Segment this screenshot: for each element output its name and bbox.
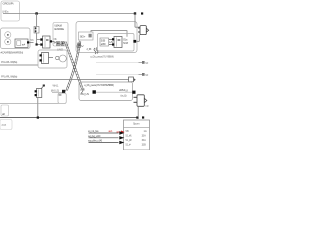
pigtail top-left bbox=[59, 43, 65, 45]
svg-text:15.B: 15.B bbox=[142, 144, 147, 147]
svg-text:L/A02: L/A02 bbox=[57, 47, 64, 51]
svg-text:SiGr-: SiGr- bbox=[80, 35, 86, 39]
svg-text:PFLARU.Mt(8a): PFLARU.Mt(8a) bbox=[1, 75, 17, 79]
svg-text:UtZ#Lt8: UtZ#Lt8 bbox=[54, 23, 62, 27]
plug P2 bottom right bbox=[134, 95, 147, 118]
node dot far right bbox=[141, 12, 143, 14]
connector C0 on vertical wire bbox=[34, 27, 39, 34]
svg-text:SO#: SO# bbox=[123, 41, 128, 45]
pin stubs bbox=[37, 39, 41, 41]
svg-text:a.BD: a.BD bbox=[101, 42, 106, 46]
plug P1 top right bbox=[135, 14, 149, 42]
svg-text:#CAXRE(NHMRSN): #CAXRE(NHMRSN) bbox=[1, 51, 24, 55]
main bus line y=117.5 bbox=[0, 117, 138, 119]
svg-text:avg_p0ey_u140: avg_p0ey_u140 bbox=[88, 140, 103, 143]
svg-text:Spum: Spum bbox=[133, 122, 140, 126]
svg-text:15.A: 15.A bbox=[142, 139, 147, 142]
outer box R bbox=[76, 22, 137, 53]
box B printer bbox=[79, 82, 136, 101]
wire line y=79.5 bbox=[0, 79, 129, 81]
wire vertical x=36.5 bbox=[36, 14, 38, 45]
box L2 bbox=[38, 50, 67, 68]
svg-text:#O8: #O8 bbox=[2, 123, 7, 127]
svg-text:5.1_#2: 5.1_#2 bbox=[126, 139, 133, 142]
terminator on line y=79.5 bbox=[129, 77, 136, 82]
svg-text:aKBub_g: aKBub_g bbox=[119, 88, 128, 92]
svg-text:(m_U): (m_U) bbox=[121, 93, 127, 97]
small box on bus left bbox=[1, 105, 9, 116]
small box bottom-left bbox=[0, 120, 12, 130]
svg-text:an_m1_bce: an_m1_bce bbox=[88, 130, 99, 133]
conn pins R bottom-left bbox=[77, 43, 81, 50]
signal converter CM1 bbox=[43, 36, 51, 48]
svg-text:#eSRD#a: #eSRD#a bbox=[54, 27, 64, 31]
area line y=103.5 bbox=[0, 102, 59, 104]
chain beta (twisted pair cable) bbox=[66, 41, 81, 91]
controller box TL bbox=[1, 1, 20, 21]
faint wire y=74.5 + end mark bbox=[96, 74, 142, 76]
junction dot bbox=[36, 43, 38, 45]
svg-text:u_0b_peca (7UYbRTE5BM): u_0b_peca (7UYbRTE5BM) bbox=[84, 83, 114, 87]
svg-text:15.A: 15.A bbox=[142, 135, 147, 138]
wire bus top y=13.5 bbox=[3, 13, 135, 15]
node dot right bbox=[134, 12, 136, 14]
svg-text:BM_US: BM_US bbox=[81, 92, 90, 96]
small rect in R2 bbox=[100, 38, 109, 46]
svg-text:5.1_#1: 5.1_#1 bbox=[126, 135, 133, 138]
small unit R1 bbox=[79, 32, 94, 40]
component CP3 bottom bbox=[35, 85, 45, 98]
inner box R2 bbox=[98, 34, 135, 52]
svg-text:WHL1: WHL1 bbox=[53, 85, 60, 88]
right pin of box R bbox=[133, 40, 136, 43]
svg-text:GROUPt: GROUPt bbox=[3, 2, 14, 6]
remote box L0 bbox=[1, 28, 35, 49]
legend table bbox=[124, 120, 150, 150]
CM2 pins bbox=[112, 38, 114, 40]
CP3 wire down bbox=[37, 98, 39, 118]
pigtail bottom-right bbox=[81, 90, 83, 93]
wire R1 to R2 top bbox=[91, 31, 127, 37]
CM1 pins bbox=[40, 38, 42, 40]
CM1 right pin bbox=[50, 40, 52, 42]
node junction dot bbox=[35, 12, 37, 14]
chain alpha (twisted pair cable) bbox=[64, 42, 84, 90]
svg-text:PFLARU.Mt(8a): PFLARU.Mt(8a) bbox=[1, 60, 17, 64]
wire line y=65 bbox=[0, 64, 38, 66]
svg-text:5.0B: 5.0B bbox=[101, 39, 106, 43]
pigtail bottom-left bbox=[63, 90, 67, 92]
svg-text:LINEa: LINEa bbox=[2, 10, 9, 14]
R2 squiggle conn bbox=[94, 48, 96, 54]
svg-text:d_tBt: d_tBt bbox=[87, 47, 92, 51]
faint wire y=62.5 + end mark bbox=[96, 62, 142, 64]
signal rows into table bbox=[88, 130, 124, 144]
svg-text:avg_tkg_u100: avg_tkg_u100 bbox=[88, 135, 101, 138]
small wall box at line end bbox=[58, 93, 66, 103]
pigtail top-right bbox=[80, 44, 84, 47]
wall box UL bbox=[53, 23, 68, 47]
svg-text:u_0b_peca (7UY8BM): u_0b_peca (7UY8BM) bbox=[90, 54, 114, 58]
converter CM2 bbox=[114, 37, 122, 48]
